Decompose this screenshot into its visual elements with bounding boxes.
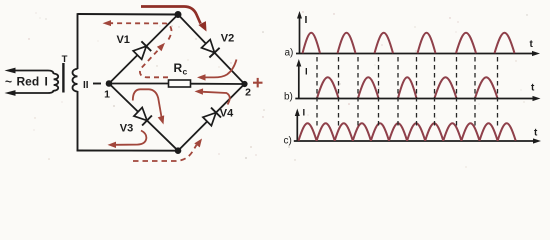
waveform c: full-wave rectified output — [299, 123, 516, 140]
svg-text:R: R — [174, 61, 183, 75]
svg-text:I: I — [303, 108, 306, 119]
svg-text:c): c) — [284, 136, 292, 147]
current arrow: dashed leftward at top (toward transformer) — [111, 23, 171, 39]
wire: bridge arm top node to node2 (V2 branch) — [178, 15, 245, 85]
svg-text:II: II — [83, 80, 89, 91]
svg-text:I: I — [305, 67, 308, 78]
diode V2 — [202, 40, 220, 58]
node top (junction dot) — [175, 11, 182, 18]
current arrow: thick solid over top node into V2 branch — [141, 7, 201, 24]
transformer T primary winding I — [54, 74, 59, 91]
svg-text:V4: V4 — [220, 108, 234, 120]
svg-text:V1: V1 — [116, 34, 129, 46]
waveform a: rectified half-period humps — [303, 33, 515, 53]
wire: dash from secondary to node 1 — [93, 83, 101, 85]
svg-text:V3: V3 — [120, 123, 133, 135]
svg-text:1: 1 — [104, 89, 110, 101]
current arrow: dashed below bottom wire up into V4 branch — [133, 145, 197, 161]
waveform b: rectified half-period humps (opposite half-cycles) — [317, 77, 498, 98]
node 1 (junction dot) — [106, 80, 113, 87]
svg-text:I: I — [45, 75, 48, 89]
wire: left rail upper segment — [77, 13, 79, 69]
wire: bottom horizontal from left rail to bottom node — [77, 150, 178, 152]
svg-text:T: T — [62, 54, 68, 65]
dashed vertical timing lines across plots — [317, 57, 498, 128]
current arrow: solid hook to bottom wire leftward — [116, 131, 146, 145]
transformer T core — [62, 63, 64, 93]
wire: bridge arm node1 to bottom node (V3 branch) — [109, 84, 178, 151]
current arrow: solid hook from Rc wire down along V3 branch — [133, 89, 162, 117]
transformer T primary lead top with arrow — [13, 71, 54, 75]
wire: middle horizontal node1 to Rc — [109, 83, 169, 85]
current arrow: solid leftward above Rc from V2 branch — [205, 60, 237, 78]
node 2 (junction dot) — [241, 81, 247, 87]
wire: bridge arm node1 to top node (V1 branch) — [109, 15, 178, 84]
diode V3 — [134, 108, 152, 126]
label + (positive output) — [253, 78, 263, 88]
transformer T secondary winding II — [72, 69, 77, 92]
wire: bridge arm bottom node to node2 (V4 branch) — [178, 84, 245, 151]
svg-text:Red: Red — [17, 75, 40, 89]
current arrow: solid leftward below Rc from V4 branch — [203, 92, 230, 105]
svg-text:b): b) — [284, 92, 293, 103]
waveform c: axes — [294, 112, 537, 141]
waveform a: axes — [296, 14, 536, 54]
current arrow: dashed from Rc up along V1 branch — [140, 48, 168, 77]
wire: left rail lower segment — [77, 91, 79, 151]
svg-text:V2: V2 — [221, 33, 234, 45]
svg-text:~: ~ — [5, 75, 12, 89]
svg-text:I: I — [305, 14, 308, 26]
node bottom (junction dot) — [175, 147, 182, 154]
svg-text:a): a) — [285, 48, 294, 59]
svg-text:2: 2 — [245, 87, 251, 99]
diode V4 — [203, 108, 221, 126]
svg-text:c: c — [183, 67, 188, 77]
diode V1 — [133, 41, 151, 59]
transformer T primary lead bottom with arrow — [13, 90, 54, 93]
wire: middle horizontal Rc to node2 — [190, 83, 245, 85]
wire: top horizontal from left rail to top node — [78, 13, 179, 16]
resistor Rc — [169, 80, 191, 87]
waveform b: axes — [295, 63, 536, 99]
